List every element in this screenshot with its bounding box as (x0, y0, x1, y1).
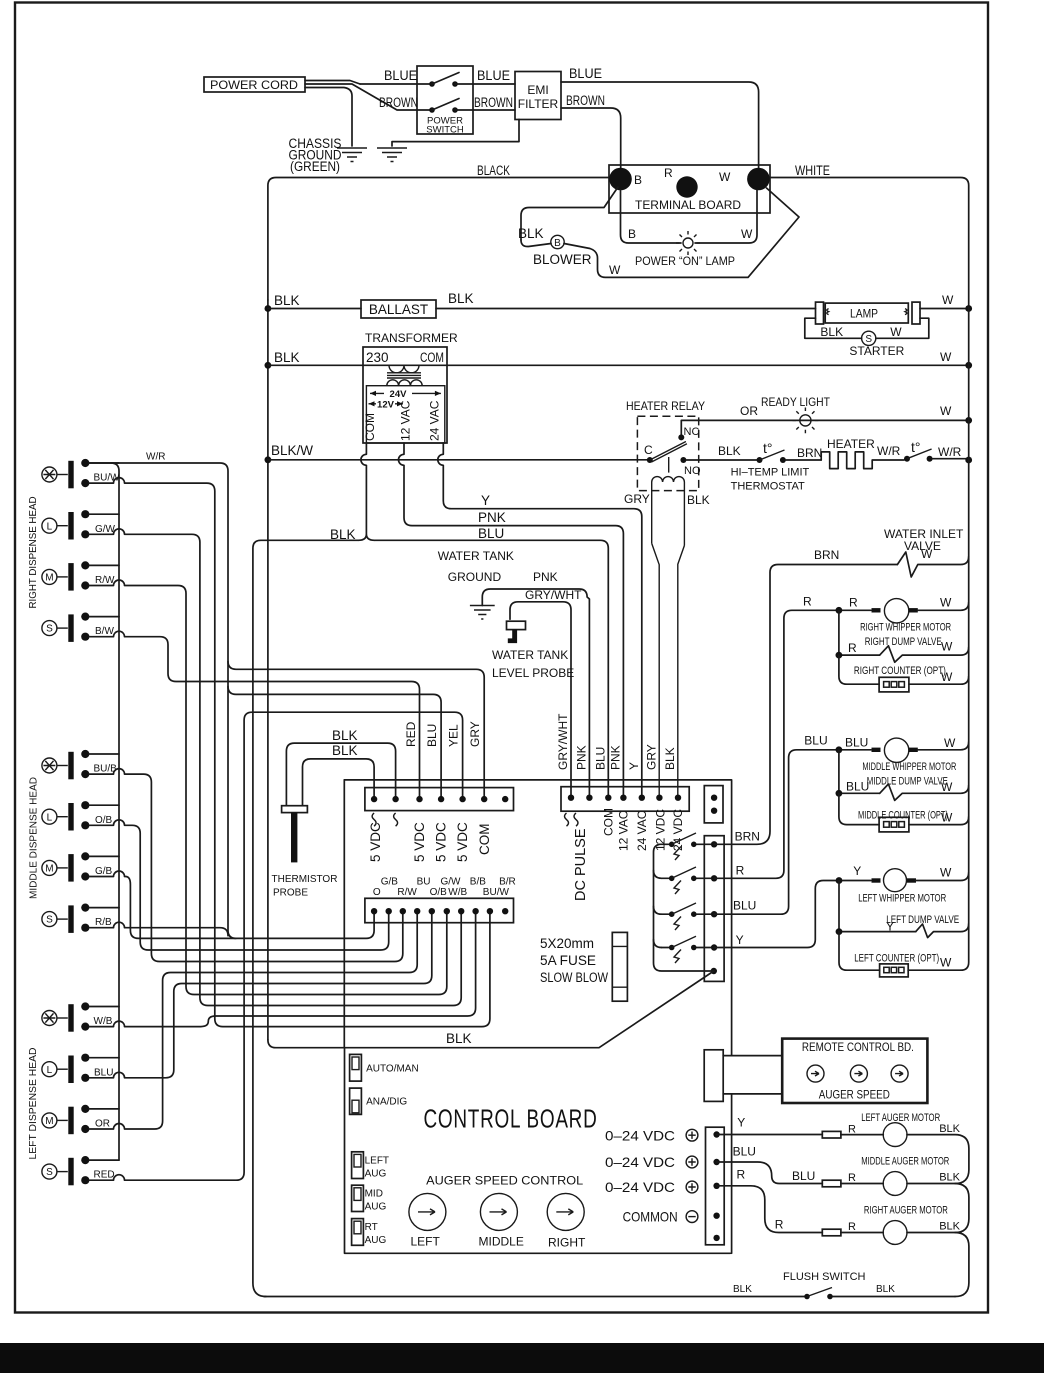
svg-text:S: S (46, 915, 53, 926)
svg-text:YEL: YEL (447, 724, 461, 747)
svg-text:BLK: BLK (687, 493, 710, 507)
svg-text:FLUSH SWITCH: FLUSH SWITCH (783, 1271, 866, 1283)
svg-text:COM: COM (420, 350, 444, 365)
svg-text:230: 230 (366, 350, 389, 365)
svg-text:Y: Y (853, 864, 861, 878)
svg-text:COM: COM (601, 808, 615, 836)
svg-text:LEFT WHIPPER MOTOR: LEFT WHIPPER MOTOR (858, 893, 946, 905)
svg-text:M: M (45, 864, 53, 875)
svg-text:R: R (737, 1168, 746, 1182)
svg-text:R: R (849, 596, 858, 610)
svg-text:MIDDLE: MIDDLE (479, 1235, 524, 1249)
svg-text:R: R (803, 595, 812, 609)
svg-text:WATER TANK: WATER TANK (492, 648, 568, 662)
svg-text:STARTER: STARTER (849, 344, 904, 358)
svg-text:PROBE: PROBE (273, 888, 308, 899)
svg-text:RED: RED (404, 721, 418, 747)
svg-text:W: W (941, 670, 953, 684)
svg-text:AUG: AUG (365, 1235, 387, 1246)
svg-text:Y: Y (481, 493, 490, 508)
svg-text:RIGHT WHIPPER MOTOR: RIGHT WHIPPER MOTOR (860, 622, 951, 634)
svg-text:BLK: BLK (332, 728, 358, 743)
svg-text:BLK: BLK (939, 1221, 960, 1233)
svg-text:S: S (46, 624, 53, 635)
svg-text:G/W: G/W (441, 877, 462, 888)
svg-text:READY LIGHT: READY LIGHT (761, 395, 831, 409)
svg-text:Y: Y (886, 920, 894, 934)
svg-text:BLUE: BLUE (384, 68, 417, 83)
svg-text:LEFT DISPENSE HEAD: LEFT DISPENSE HEAD (28, 1048, 39, 1160)
svg-text:W: W (741, 227, 753, 241)
svg-text:L: L (47, 812, 53, 823)
svg-text:REMOTE CONTROL BD.: REMOTE CONTROL BD. (802, 1040, 914, 1054)
svg-text:M: M (45, 1116, 53, 1127)
svg-text:MIDDLE DISPENSE HEAD: MIDDLE DISPENSE HEAD (29, 777, 40, 899)
svg-text:BLU: BLU (792, 1169, 815, 1183)
svg-text:AUTO/MAN: AUTO/MAN (366, 1064, 419, 1075)
svg-text:B/W: B/W (95, 626, 114, 637)
svg-text:R: R (848, 1124, 856, 1136)
svg-text:BRN: BRN (735, 830, 760, 844)
svg-text:HEATER: HEATER (827, 437, 875, 451)
svg-text:t°: t° (911, 439, 921, 455)
svg-text:BLU: BLU (846, 780, 869, 794)
svg-text:MIDDLE DUMP VALVE: MIDDLE DUMP VALVE (867, 776, 948, 788)
svg-text:R: R (664, 166, 673, 180)
svg-text:BLUE: BLUE (569, 66, 602, 81)
svg-text:24 VAC: 24 VAC (635, 810, 649, 851)
svg-text:RIGHT AUGER MOTOR: RIGHT AUGER MOTOR (864, 1205, 948, 1217)
svg-text:12 VAC: 12 VAC (399, 400, 413, 441)
svg-text:BLU: BLU (478, 526, 504, 541)
svg-text:RED: RED (94, 1170, 115, 1181)
svg-text:BALLAST: BALLAST (369, 302, 428, 317)
svg-text:0–24 VDC: 0–24 VDC (605, 1179, 675, 1195)
svg-text:AUG: AUG (365, 1169, 387, 1180)
svg-text:AUGER SPEED: AUGER SPEED (819, 1088, 890, 1102)
svg-text:BLU: BLU (94, 1067, 113, 1078)
svg-text:W: W (940, 350, 952, 364)
svg-text:W: W (942, 293, 954, 307)
svg-text:THERMISTOR: THERMISTOR (272, 874, 338, 885)
svg-text:BLU: BLU (593, 747, 607, 770)
svg-text:PNK: PNK (608, 745, 622, 770)
svg-text:G/W: G/W (95, 524, 116, 535)
svg-text:BRN: BRN (797, 446, 822, 460)
svg-text:M: M (45, 573, 53, 584)
svg-text:0–24 VDC: 0–24 VDC (605, 1154, 675, 1170)
svg-text:THERMOSTAT: THERMOSTAT (731, 481, 805, 493)
svg-text:RT: RT (365, 1222, 378, 1233)
svg-text:PNK: PNK (574, 745, 588, 770)
svg-text:NO: NO (684, 465, 701, 477)
svg-text:BLK: BLK (733, 1284, 752, 1295)
svg-text:COM: COM (477, 824, 492, 856)
svg-text:BRN: BRN (814, 548, 839, 562)
svg-text:POWER “ON” LAMP: POWER “ON” LAMP (635, 254, 735, 268)
svg-text:W: W (921, 547, 933, 561)
svg-text:MID: MID (365, 1189, 383, 1200)
svg-text:W: W (940, 596, 952, 610)
svg-text:SWITCH: SWITCH (426, 125, 464, 136)
svg-text:BLUE: BLUE (477, 68, 510, 83)
svg-text:RIGHT COUNTER (OPT): RIGHT COUNTER (OPT) (854, 665, 946, 677)
svg-text:GROUND: GROUND (448, 570, 502, 584)
svg-text:WATER TANK: WATER TANK (438, 549, 514, 563)
svg-text:FILTER: FILTER (518, 97, 559, 111)
svg-text:DC PULSE: DC PULSE (573, 828, 589, 901)
svg-text:RIGHT DISPENSE HEAD: RIGHT DISPENSE HEAD (28, 497, 39, 609)
svg-text:B/R: B/R (499, 877, 516, 888)
svg-text:t°: t° (763, 440, 773, 456)
svg-text:PNK: PNK (533, 570, 558, 584)
svg-text:ANA/DIG: ANA/DIG (366, 1097, 407, 1108)
svg-text:R/B: R/B (95, 917, 112, 928)
svg-text:R/W: R/W (397, 887, 417, 898)
svg-text:BROWN: BROWN (474, 95, 513, 110)
svg-text:BLK: BLK (332, 743, 358, 758)
svg-text:B: B (634, 173, 642, 187)
svg-text:BU/W: BU/W (483, 887, 510, 898)
svg-text:5 VDC: 5 VDC (412, 822, 427, 862)
svg-text:G/B: G/B (381, 877, 399, 888)
svg-text:Y: Y (736, 933, 744, 947)
svg-text:W/R: W/R (146, 452, 165, 463)
svg-text:Y: Y (737, 1116, 745, 1130)
svg-text:BLU: BLU (804, 734, 827, 748)
svg-text:COM: COM (363, 413, 377, 441)
svg-text:5X20mm: 5X20mm (540, 936, 594, 951)
svg-text:LEVEL PROBE: LEVEL PROBE (492, 666, 574, 680)
svg-text:B: B (628, 227, 636, 241)
svg-text:BLK: BLK (274, 293, 300, 308)
svg-text:O: O (373, 887, 381, 898)
svg-text:BLK: BLK (939, 1123, 960, 1135)
svg-text:EMI: EMI (527, 83, 548, 97)
svg-text:GRY: GRY (644, 744, 658, 770)
svg-text:L: L (47, 1065, 53, 1076)
svg-text:5 VDC: 5 VDC (455, 822, 470, 862)
svg-text:MIDDLE COUNTER (OPT): MIDDLE COUNTER (OPT) (858, 810, 948, 822)
svg-text:BLK: BLK (718, 444, 741, 458)
svg-text:Y: Y (627, 762, 641, 770)
svg-text:W/B: W/B (448, 887, 467, 898)
svg-text:O/B: O/B (95, 815, 113, 826)
svg-text:BLK: BLK (820, 325, 843, 339)
svg-text:BLK: BLK (518, 226, 544, 241)
svg-text:W: W (944, 736, 956, 750)
svg-text:LEFT: LEFT (365, 1156, 389, 1167)
svg-text:LEFT AUGER MOTOR: LEFT AUGER MOTOR (861, 1112, 940, 1124)
svg-text:PNK: PNK (478, 510, 506, 525)
svg-text:L: L (47, 521, 53, 532)
svg-text:O/B: O/B (430, 887, 448, 898)
svg-text:MIDDLE WHIPPER MOTOR: MIDDLE WHIPPER MOTOR (862, 761, 956, 773)
svg-text:W: W (940, 956, 952, 970)
svg-text:GRY/WHT: GRY/WHT (525, 588, 582, 602)
svg-text:OR: OR (740, 404, 758, 418)
svg-text:R: R (775, 1218, 784, 1232)
svg-text:S: S (46, 1167, 53, 1178)
svg-text:TERMINAL BOARD: TERMINAL BOARD (635, 198, 741, 212)
svg-text:12V: 12V (377, 399, 395, 410)
svg-text:R: R (848, 1221, 856, 1233)
svg-text:BLU: BLU (425, 724, 439, 747)
svg-text:BLK: BLK (446, 1031, 472, 1046)
svg-text:W: W (940, 404, 952, 418)
svg-text:BROWN: BROWN (566, 93, 605, 108)
svg-text:W: W (719, 170, 731, 184)
svg-text:LEFT COUNTER (OPT): LEFT COUNTER (OPT) (854, 953, 939, 965)
svg-text:R: R (848, 1172, 856, 1184)
svg-text:BLK: BLK (663, 747, 677, 770)
svg-text:(GREEN): (GREEN) (290, 159, 340, 174)
svg-text:5 VDC: 5 VDC (434, 822, 449, 862)
svg-text:COMMON: COMMON (623, 1209, 678, 1225)
svg-text:W: W (890, 325, 902, 339)
svg-text:B: B (554, 238, 561, 249)
svg-text:BLK: BLK (939, 1172, 960, 1184)
svg-text:5A FUSE: 5A FUSE (540, 953, 596, 968)
svg-text:R/W: R/W (95, 575, 115, 586)
svg-text:HEATER RELAY: HEATER RELAY (626, 399, 705, 413)
svg-text:5 VDC: 5 VDC (368, 822, 383, 862)
svg-text:C: C (644, 443, 653, 457)
svg-text:W: W (609, 263, 621, 277)
svg-text:POWER CORD: POWER CORD (210, 78, 298, 92)
svg-text:W: W (941, 780, 953, 794)
svg-text:0–24 VDC: 0–24 VDC (605, 1127, 675, 1143)
svg-text:MIDDLE AUGER MOTOR: MIDDLE AUGER MOTOR (861, 1156, 949, 1168)
svg-text:GRY: GRY (468, 721, 482, 747)
svg-text:BLU: BLU (733, 1144, 756, 1158)
svg-text:AUGER SPEED CONTROL: AUGER SPEED CONTROL (426, 1174, 583, 1188)
svg-text:R: R (736, 864, 745, 878)
svg-text:B/B: B/B (470, 877, 486, 888)
svg-text:W/B: W/B (94, 1016, 113, 1027)
svg-text:OR: OR (95, 1119, 110, 1130)
svg-text:12 VAC: 12 VAC (616, 810, 630, 851)
svg-text:BLK: BLK (876, 1284, 895, 1295)
svg-text:BLK: BLK (274, 350, 300, 365)
svg-text:BU: BU (417, 877, 431, 888)
svg-text:24 VAC: 24 VAC (428, 400, 442, 441)
svg-text:BLU: BLU (845, 736, 868, 750)
svg-text:CONTROL BOARD: CONTROL BOARD (424, 1104, 598, 1134)
svg-text:BLOWER: BLOWER (533, 252, 592, 267)
svg-text:NC: NC (684, 426, 700, 438)
svg-text:W/R: W/R (877, 444, 901, 458)
svg-text:BLK: BLK (448, 291, 474, 306)
svg-text:SLOW BLOW: SLOW BLOW (540, 970, 608, 985)
svg-text:LAMP: LAMP (850, 307, 878, 321)
svg-text:W/R: W/R (938, 445, 962, 459)
svg-text:W: W (941, 811, 953, 825)
svg-text:R: R (848, 641, 857, 655)
svg-text:GRY: GRY (624, 492, 650, 506)
svg-text:WHITE: WHITE (795, 163, 830, 178)
svg-text:BLK/W: BLK/W (271, 443, 313, 458)
svg-text:HI–TEMP LIMIT: HI–TEMP LIMIT (731, 467, 810, 479)
svg-text:W: W (941, 640, 953, 654)
svg-text:AUG: AUG (365, 1202, 387, 1213)
svg-text:BLACK: BLACK (477, 163, 510, 178)
svg-text:W: W (940, 866, 952, 880)
svg-text:TRANSFORMER: TRANSFORMER (365, 331, 458, 345)
svg-text:G/B: G/B (95, 866, 113, 877)
svg-text:RIGHT DUMP VALVE: RIGHT DUMP VALVE (865, 636, 942, 648)
svg-text:RIGHT: RIGHT (548, 1236, 586, 1250)
svg-text:LEFT: LEFT (411, 1235, 441, 1249)
svg-text:BROWN: BROWN (379, 95, 418, 110)
svg-text:BLU: BLU (733, 899, 756, 913)
svg-text:GRY/WHT: GRY/WHT (556, 713, 570, 770)
